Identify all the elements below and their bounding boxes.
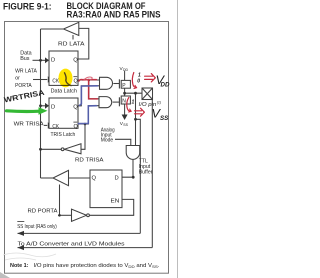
pen mark inside highlight bbox=[65, 73, 72, 86]
wire bus to data latch D bbox=[33, 59, 46, 61]
wire WR TRISA to CK bbox=[44, 124, 47, 126]
TTL input buffer bbox=[126, 146, 140, 160]
wire A/D branch from pin box bbox=[151, 100, 153, 248]
svg-text:DD: DD bbox=[161, 81, 170, 88]
wire SS branch from pin bbox=[136, 119, 141, 233]
wire bus top to RD LATA tip bbox=[41, 28, 64, 30]
svg-text:I/O pins have protection diode: I/O pins have protection diodes to VDD a… bbox=[34, 263, 161, 269]
svg-text:Buffer: Buffer bbox=[139, 169, 153, 175]
svg-text:D: D bbox=[51, 104, 55, 110]
red double arrow to VSS bbox=[135, 108, 145, 116]
wire bottom gate output to N gate bar bbox=[113, 101, 120, 103]
svg-text:Q: Q bbox=[73, 58, 78, 64]
arrow data latch D input bbox=[45, 57, 49, 63]
arrow VSS down bbox=[122, 115, 128, 121]
wire VDD to P transistor bbox=[124, 71, 126, 81]
svg-text:FIGURE 9-1:: FIGURE 9-1: bbox=[3, 2, 52, 12]
junction bus to data latch D bbox=[39, 59, 42, 62]
red loop at Qbar junction bbox=[84, 77, 93, 80]
input latch box bbox=[90, 170, 122, 208]
svg-text:SS: SS bbox=[160, 115, 169, 122]
wire bus to TRIS latch D bbox=[41, 105, 46, 107]
svg-text:DD: DD bbox=[123, 68, 129, 72]
wire data latch Qbar to top gate bbox=[78, 79, 100, 81]
junction TTL out at latch D bbox=[132, 176, 135, 179]
red overtrace vertical to bottom gate bbox=[89, 81, 98, 99]
svg-text:WR LATA: WR LATA bbox=[15, 69, 37, 75]
junction RD PORTA enable tee bbox=[58, 214, 61, 217]
svg-text:EN: EN bbox=[111, 198, 120, 204]
blue overtrace TRIS Q to top gate bbox=[80, 86, 98, 106]
clock triangle data latch bbox=[48, 76, 52, 82]
svg-text:1: 1 bbox=[132, 100, 135, 106]
arrow TRIS latch D input bbox=[45, 103, 49, 109]
wire bus to read buffer tip bbox=[41, 177, 54, 179]
N transistor bbox=[118, 97, 120, 106]
svg-text:SS Input (RA5 only): SS Input (RA5 only) bbox=[17, 224, 57, 230]
wire TRIS Qbar to bottom gate bbox=[78, 106, 99, 124]
red double arrow to VDD bbox=[145, 74, 156, 82]
read buffer RD PORTA tri-state bbox=[53, 170, 69, 185]
junction Qbar split bbox=[88, 79, 91, 82]
svg-text:D: D bbox=[115, 176, 119, 182]
wire inverter to EN bbox=[89, 199, 133, 215]
clock triangle TRIS latch bbox=[48, 122, 52, 128]
wire TRIS Q up to top gate bbox=[78, 86, 100, 106]
wire A/D line bbox=[18, 247, 153, 249]
wire Qbar down to bottom gate bbox=[89, 80, 99, 99]
wire WR LATA to CK bbox=[33, 79, 47, 81]
wire bus to RD TRISA bubble bbox=[41, 148, 62, 150]
junction bus to RD TRISA bbox=[39, 148, 42, 151]
svg-text:CK: CK bbox=[52, 124, 59, 130]
RD PORTA inverter bbox=[72, 209, 87, 221]
svg-text:SS: SS bbox=[123, 123, 128, 127]
svg-text:RD PORTA: RD PORTA bbox=[28, 209, 58, 215]
wire RD PORTA to inverter bbox=[58, 214, 72, 216]
label SS Input (RA5 only) bbox=[17, 221, 24, 223]
svg-text:TRIS Latch: TRIS Latch bbox=[51, 132, 76, 138]
wire P to node to N bbox=[124, 88, 126, 96]
red overtrace data latch Qbar wire bbox=[79, 80, 97, 81]
svg-text:RD LATA: RD LATA bbox=[58, 41, 85, 47]
wire pin down to TTL buffer bbox=[135, 93, 137, 145]
faint pencil scribble bottom left bbox=[3, 253, 56, 260]
wire data bus vertical bbox=[40, 29, 42, 178]
svg-text:WR TRISA: WR TRISA bbox=[14, 121, 44, 127]
page corner shadow bottom-left bbox=[0, 272, 10, 278]
wire SS input line bbox=[18, 232, 141, 234]
junction TRIS Qbar split bbox=[84, 123, 87, 126]
RD TRISA buffer bbox=[64, 144, 81, 154]
svg-text:Q: Q bbox=[74, 124, 78, 130]
wire read buffer enable from RD PORTA bbox=[59, 185, 61, 216]
TRIS latch box bbox=[49, 98, 78, 128]
page edge line bbox=[177, 0, 179, 278]
svg-text:or: or bbox=[15, 76, 20, 82]
svg-text:To A/D Converter and LVD Modul: To A/D Converter and LVD Modules bbox=[18, 241, 125, 247]
data latch box bbox=[49, 51, 78, 85]
yellow highlight blob on data latch CK bbox=[59, 69, 73, 88]
svg-text:CK: CK bbox=[52, 79, 59, 85]
bottom gate AND (N driver) bbox=[99, 97, 112, 108]
figure border bbox=[5, 22, 169, 274]
svg-text:Note 1:: Note 1: bbox=[10, 263, 29, 269]
arrow A/D left bbox=[17, 245, 24, 250]
svg-text:Bus: Bus bbox=[20, 56, 30, 62]
junction totem node bbox=[123, 92, 126, 95]
green marker arrow bbox=[7, 109, 40, 113]
RD LATA buffer bbox=[64, 22, 79, 35]
junction pin node bbox=[134, 92, 137, 95]
svg-text:RA3:RA0 AND RA5 PINS: RA3:RA0 AND RA5 PINS bbox=[67, 10, 161, 20]
junction bus to TRIS latch D bbox=[39, 104, 42, 107]
wire top gate output to P gate bar bbox=[113, 83, 119, 85]
svg-text:RD TRISA: RD TRISA bbox=[75, 158, 104, 164]
wire TTL buffer output to latch D bbox=[122, 159, 133, 177]
svg-text:N: N bbox=[122, 99, 126, 105]
svg-text:Q: Q bbox=[74, 79, 78, 85]
wire node to pin box bbox=[125, 92, 142, 94]
blue overtrace TRIS Qbar to bottom gate bbox=[79, 106, 97, 124]
wire TRIS Qbar down to RD TRISA input bbox=[81, 124, 85, 149]
arrow SS input left bbox=[17, 231, 24, 236]
P transistor bbox=[118, 79, 120, 88]
svg-text:D: D bbox=[51, 58, 55, 64]
svg-text:Mode: Mode bbox=[101, 138, 114, 144]
junction pin SS tap bbox=[134, 118, 137, 121]
wire read buffer input to latch Q bbox=[69, 177, 91, 179]
svg-text:Q: Q bbox=[92, 176, 97, 182]
svg-text:PORTA: PORTA bbox=[15, 83, 32, 89]
RD LATA enable stub bbox=[72, 35, 74, 40]
page background bbox=[0, 0, 182, 278]
svg-text:(1): (1) bbox=[157, 101, 161, 105]
red annotation near P: down-curved arrow with 1/0 bbox=[132, 73, 136, 88]
svg-text:Q: Q bbox=[73, 104, 78, 110]
svg-text:0: 0 bbox=[137, 78, 140, 84]
top gate AND (P driver) bbox=[100, 77, 113, 89]
wire analog input mode to TTL buffer bbox=[115, 139, 131, 145]
wire N down to VSS arrow bbox=[124, 104, 126, 116]
svg-text:Data Latch: Data Latch bbox=[51, 89, 77, 95]
wire RD LATA input from Q bbox=[78, 28, 89, 59]
red annotation near N: curve with 1 bbox=[127, 98, 131, 111]
I/O pin box bbox=[142, 88, 153, 100]
